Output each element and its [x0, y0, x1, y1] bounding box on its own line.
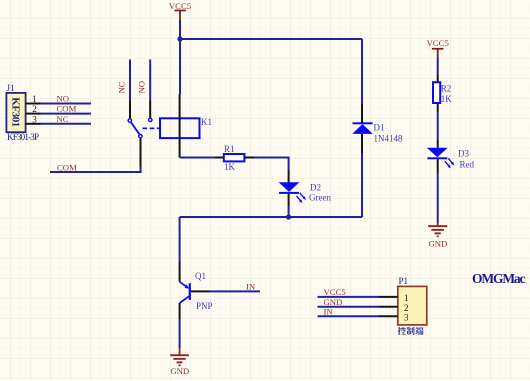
svg-text:NC: NC — [116, 81, 126, 93]
LED D3 — [427, 148, 475, 170]
pin D3 cathode stub — [437, 159, 439, 173]
wire IN to P1-3 — [318, 315, 380, 317]
wire net COM from J1-2 — [41, 113, 92, 115]
svg-text:COM: COM — [57, 162, 77, 172]
pin P1-2 stub — [379, 306, 398, 308]
pin NC stub — [129, 101, 131, 119]
svg-text:R1: R1 — [224, 144, 235, 154]
wire R1 to D2 corner — [254, 158, 289, 171]
svg-text:3: 3 — [404, 312, 409, 322]
wire COM — [50, 167, 141, 172]
pin Q1 emitter stub — [179, 262, 181, 282]
pin NO stub — [149, 101, 151, 118]
svg-text:KF301-3P: KF301-3P — [7, 132, 39, 142]
pin D2 cathode stub — [288, 194, 290, 206]
wire R2 to D3 — [437, 112, 439, 141]
svg-text:1K: 1K — [441, 94, 453, 104]
svg-text:NO: NO — [137, 81, 147, 94]
pin R1 right stub — [244, 157, 254, 159]
pin P1-1 stub — [379, 296, 398, 298]
relay K1 coil box — [160, 117, 212, 138]
wire NC vertical — [129, 60, 131, 101]
wire bottom horizontal rail — [180, 216, 362, 218]
wire right vertical (D1 branch) top — [361, 39, 363, 104]
svg-text:VCC5: VCC5 — [324, 287, 346, 297]
svg-text:GND: GND — [428, 239, 447, 249]
svg-text:NO: NO — [57, 94, 70, 104]
svg-text:K1: K1 — [201, 117, 212, 127]
ground (Q1) — [170, 348, 189, 376]
pin R2 top stub — [437, 75, 439, 83]
label 控制端 — [398, 327, 424, 335]
pin P1-3 stub — [379, 315, 398, 317]
wire top horizontal — [180, 38, 362, 40]
svg-text:2: 2 — [32, 104, 37, 114]
svg-text:Q1: Q1 — [195, 271, 206, 281]
pin K1 coil top stub — [179, 95, 181, 119]
wire D1 down to bottom rail — [361, 153, 363, 217]
svg-text:1: 1 — [32, 94, 37, 104]
connector P1 — [398, 276, 427, 325]
svg-text:R2: R2 — [441, 84, 452, 94]
svg-text:IN: IN — [324, 306, 334, 316]
svg-text:D1: D1 — [374, 123, 385, 133]
pin D2 anode stub — [288, 170, 290, 183]
wire Q1 to ground — [179, 319, 181, 348]
svg-text:COM: COM — [57, 104, 77, 114]
diode D1 — [352, 122, 403, 143]
svg-text:KF301: KF301 — [10, 97, 22, 127]
node junction at VCC rail — [177, 36, 182, 41]
wire VCC5 to P1-1 — [318, 296, 380, 298]
pin Q1 base stub — [191, 290, 210, 292]
pin J1-2 stub — [26, 113, 41, 115]
pin R1 left stub — [215, 157, 224, 159]
relay K1 actuator dashed link — [143, 127, 160, 129]
relay K1 switch contact NC — [128, 119, 131, 122]
LED D2 — [279, 182, 332, 203]
svg-text:3: 3 — [32, 114, 37, 124]
svg-text:OMGMac: OMGMac — [472, 271, 526, 286]
pin switch pole stub — [140, 138, 142, 167]
svg-text:VCC5: VCC5 — [427, 38, 449, 48]
svg-text:P1: P1 — [399, 276, 409, 286]
wire bottom rail down to Q1 — [179, 217, 181, 262]
svg-text:NC: NC — [57, 114, 69, 124]
svg-text:IN: IN — [246, 281, 256, 291]
wire VCC5 stem to junction — [179, 20, 181, 39]
connector J1 — [6, 83, 39, 142]
resistor R2 — [433, 82, 452, 104]
transistor Q1 — [180, 271, 213, 311]
svg-text:GND: GND — [324, 297, 343, 307]
svg-text:1: 1 — [404, 293, 409, 303]
svg-text:1K: 1K — [224, 162, 236, 172]
pin D3 anode stub — [437, 140, 439, 148]
wire NO vertical — [149, 60, 151, 101]
pin J1-3 stub — [26, 123, 41, 125]
power VCC5 (right) — [427, 38, 449, 58]
relay K1 switch contact NO — [149, 118, 152, 121]
wire GND to P1-2 — [318, 306, 380, 308]
wire coil to R1 — [180, 157, 215, 159]
svg-text:GND: GND — [170, 366, 189, 376]
pin K1 coil bottom stub — [179, 138, 181, 158]
ground (D3) — [428, 223, 447, 249]
power VCC5 (top) — [169, 1, 191, 20]
wire net NC from J1-3 — [41, 123, 92, 125]
svg-text:J1: J1 — [7, 83, 15, 93]
wire net NO from J1-1 — [41, 103, 92, 105]
svg-text:D3: D3 — [458, 149, 469, 159]
svg-text:2: 2 — [404, 303, 409, 313]
pin D1 cathode stub — [361, 104, 363, 123]
svg-text:Red: Red — [460, 160, 475, 170]
resistor R1 — [224, 144, 245, 172]
wire junction down to relay coil — [179, 39, 181, 95]
pin R2 bottom stub — [437, 103, 439, 112]
wire base to IN — [210, 290, 261, 292]
svg-text:VCC5: VCC5 — [169, 1, 191, 11]
wire VCC5 to R2 — [437, 58, 439, 75]
relay K1 switch blade — [131, 122, 139, 134]
pin Q1 collector stub — [179, 303, 181, 319]
svg-text:1N4148: 1N4148 — [374, 133, 403, 143]
svg-text:Green: Green — [309, 193, 331, 203]
wire D3 to ground — [437, 173, 439, 223]
pin J1-1 stub — [26, 103, 41, 105]
wire D2 to bottom rail — [288, 206, 290, 217]
node junction D2 bottom — [286, 214, 291, 219]
svg-text:D2: D2 — [310, 182, 321, 192]
svg-text:PNP: PNP — [196, 301, 213, 311]
pin D1 anode stub — [361, 134, 363, 153]
relay K1 switch pole contact — [139, 135, 142, 138]
